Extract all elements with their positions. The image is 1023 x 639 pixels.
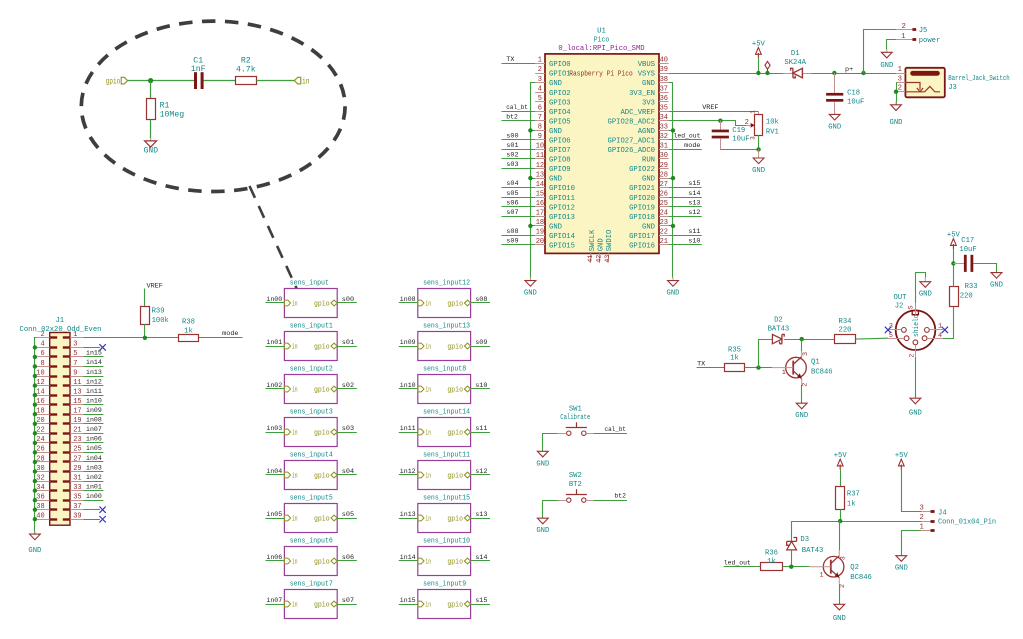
svg-text:in: in (425, 430, 431, 438)
svg-text:in04: in04 (266, 468, 282, 476)
svg-text:S: S (907, 305, 915, 309)
svg-text:s13: s13 (475, 511, 487, 519)
annotation dashed ellipse (81, 21, 345, 191)
power +5V at J4 (900, 465, 902, 470)
svg-text:GND: GND (642, 224, 655, 232)
wire J3 pin3 to pin2 to GND (896, 82, 898, 105)
svg-text:in05: in05 (86, 445, 102, 453)
J1 pin 34 (36, 490, 49, 492)
svg-text:cal_bt: cal_bt (506, 104, 528, 112)
ground under Q1 (801, 402, 803, 404)
svg-text:BC846: BC846 (811, 368, 833, 376)
wire net s03 to U1 pin 12 (502, 168, 536, 170)
svg-text:s00: s00 (342, 296, 354, 304)
svg-text:GND: GND (549, 80, 562, 88)
svg-text:s11: s11 (475, 425, 487, 433)
svg-text:RV1: RV1 (766, 128, 779, 136)
svg-text:GPIO9: GPIO9 (549, 166, 571, 174)
svg-text:BAT43: BAT43 (768, 326, 790, 334)
ground under C18 (834, 111, 836, 114)
svg-text:R38: R38 (182, 318, 195, 326)
svg-text:sens_input11: sens_input11 (423, 452, 470, 460)
svg-text:13: 13 (536, 171, 544, 179)
J1 pin 23 (70, 442, 83, 444)
svg-text:in: in (292, 301, 298, 309)
svg-text:in01: in01 (266, 339, 282, 347)
svg-text:3: 3 (839, 556, 847, 560)
wire D3 top branch (791, 521, 793, 541)
wire R34 to J2 pin5 (856, 337, 889, 340)
resistor R38 (179, 335, 199, 342)
wire net in11 from J1 pin 13 (83, 395, 103, 397)
J1 pin 6 (36, 356, 49, 358)
svg-text:gpio: gpio (314, 301, 330, 309)
svg-text:R39: R39 (152, 308, 165, 316)
op-amp U1 body (545, 54, 659, 254)
svg-text:24: 24 (36, 436, 44, 444)
wire J2 shield to GND (916, 273, 926, 304)
svg-text:8: 8 (538, 124, 542, 132)
wire SW2 left to GND (543, 501, 558, 519)
wire net s07 to U1 pin 17 (502, 216, 536, 218)
wire net in06 from J1 pin 23 (83, 442, 103, 444)
ground J2 shield (924, 278, 926, 282)
ground under SW2 (542, 517, 544, 519)
ground under SW1 (542, 450, 544, 452)
J1 pin 21 (70, 433, 83, 435)
svg-text:in03: in03 (266, 425, 282, 433)
J1 pin 28 (36, 461, 49, 463)
junction U1 right bus pin 28 (671, 176, 675, 180)
svg-text:GND: GND (828, 123, 841, 131)
svg-text:14: 14 (36, 388, 44, 396)
no-connect J1 pin 39 (83, 519, 100, 521)
svg-text:in03: in03 (86, 464, 102, 472)
svg-text:16: 16 (536, 200, 544, 208)
svg-text:23: 23 (660, 219, 668, 227)
U1 pin 3 GND (535, 82, 545, 84)
svg-text:26: 26 (36, 446, 44, 454)
svg-text:33: 33 (73, 484, 81, 492)
wire R1 to GND (150, 120, 152, 139)
junction U1 left bus pin 8 (528, 128, 532, 132)
J1 pin 38 (36, 509, 49, 511)
svg-text:8: 8 (40, 360, 44, 368)
svg-text:sens_input7: sens_input7 (290, 581, 333, 589)
svg-text:1: 1 (898, 66, 902, 74)
svg-text:15: 15 (73, 398, 81, 406)
svg-text:Conn_01x04_Pin: Conn_01x04_Pin (938, 519, 996, 527)
wire GPIO28 to RV1 wiper (669, 121, 746, 126)
J1 pin 39 (70, 519, 83, 521)
ground under Q2 (838, 603, 840, 605)
junction J5 tap (861, 71, 865, 75)
svg-text:gpio: gpio (447, 516, 463, 524)
sheet sens_input4 (284, 461, 337, 490)
hier label in (294, 77, 300, 84)
svg-text:GND: GND (597, 238, 605, 251)
svg-text:s02: s02 (342, 382, 354, 390)
svg-text:Calibrate: Calibrate (560, 414, 590, 422)
U1 pin 35 ADC_VREF (659, 111, 669, 113)
wire led_out to R36 (724, 566, 761, 568)
U1 pin 2 GPIO1 (535, 73, 545, 75)
junction J1 bus row 11 (33, 441, 37, 445)
svg-text:31: 31 (73, 474, 81, 482)
svg-text:in: in (302, 77, 310, 86)
U1 pin 42 GND (599, 253, 601, 262)
svg-text:in00: in00 (86, 493, 102, 501)
wire R2 to in (256, 80, 294, 82)
junction J1 bus row 4 (33, 374, 37, 378)
J1 pin 3 (70, 347, 83, 349)
svg-text:SK24A: SK24A (784, 59, 806, 67)
connector J5 pin 2 (896, 29, 912, 31)
svg-text:s06: s06 (342, 554, 354, 562)
svg-text:R33: R33 (965, 283, 978, 291)
svg-text:6: 6 (40, 350, 44, 358)
wire net s14 from U1 pin 26 (669, 197, 702, 199)
svg-text:28: 28 (660, 171, 668, 179)
svg-text:GND: GND (990, 282, 1003, 290)
wire net in15 from J1 pin 5 (83, 356, 103, 358)
wire D2 to R34 node (784, 339, 834, 341)
J1 pin 14 (36, 395, 49, 397)
svg-text:GND: GND (890, 119, 903, 127)
svg-text:sens_input15: sens_input15 (423, 495, 470, 503)
wire net s13 from U1 pin 25 (669, 206, 702, 208)
svg-text:s09: s09 (506, 238, 518, 246)
svg-text:sens_input9: sens_input9 (423, 581, 466, 589)
svg-text:D2: D2 (774, 316, 783, 324)
U1 pin 32 GPIO27_ADC1 (659, 139, 669, 141)
U1 pin 43 SWDIO (608, 253, 610, 262)
svg-text:1: 1 (782, 369, 786, 377)
svg-text:2: 2 (908, 354, 916, 358)
J1 pin 31 (70, 481, 83, 483)
svg-text:J4: J4 (938, 510, 947, 518)
svg-text:sens_input14: sens_input14 (423, 409, 470, 417)
wire net TX to U1 pin 1 (502, 63, 536, 65)
diode D1 SK24A (791, 68, 796, 78)
J1 pin 15 (70, 404, 83, 406)
svg-text:19: 19 (73, 417, 81, 425)
svg-text:10uF: 10uF (959, 246, 976, 254)
svg-text:s08: s08 (506, 228, 518, 236)
no-connect J2 pin 3 (885, 327, 891, 333)
svg-text:27: 27 (73, 455, 81, 463)
svg-text:GPIO22: GPIO22 (629, 166, 655, 174)
wire net led_out from U1 pin 32 (669, 139, 702, 141)
no-connect J1 pin 3 (83, 347, 100, 349)
annotation callout dashed line (250, 186, 302, 298)
U1 pin 25 GPIO19 (659, 206, 669, 208)
connector J4 pin 2 (921, 521, 930, 523)
wire Q2 collector (839, 521, 841, 550)
junction J1 bus row 10 (33, 431, 37, 435)
J1 pin 11 (70, 385, 83, 387)
svg-text:23: 23 (73, 436, 81, 444)
junction J1 bus row 9 (33, 422, 37, 426)
svg-text:R37: R37 (847, 491, 860, 499)
U1 pin 13 GND (535, 178, 545, 180)
wire net in07 from J1 pin 21 (83, 433, 103, 435)
wire J2 pin2 to GND (915, 358, 917, 399)
J1 pin 1 (70, 337, 83, 339)
svg-text:D3: D3 (800, 536, 809, 544)
svg-text:gpio: gpio (447, 344, 463, 352)
svg-text:in: in (425, 602, 431, 610)
connector J3 pin 2 (896, 91, 905, 93)
svg-text:s10: s10 (475, 382, 487, 390)
U1 pin 28 GND (659, 178, 669, 180)
svg-text:AGND: AGND (638, 128, 655, 136)
svg-text:sens_input10: sens_input10 (423, 538, 470, 546)
U1 pin 1 GPIO0 (535, 63, 545, 65)
J1 pin 13 (70, 395, 83, 397)
svg-text:gpio: gpio (447, 430, 463, 438)
U1 pin 22 GPIO17 (659, 235, 669, 237)
svg-text:+5V: +5V (752, 41, 766, 49)
svg-text:s10: s10 (688, 238, 700, 246)
svg-text:p+: p+ (845, 66, 853, 74)
resistor R36 (761, 563, 783, 571)
svg-text:in09: in09 (86, 407, 102, 415)
svg-text:in14: in14 (400, 554, 416, 562)
svg-text:3: 3 (538, 76, 542, 84)
svg-text:in06: in06 (86, 436, 102, 444)
U1 pin 19 GPIO14 (535, 235, 545, 237)
svg-text:in07: in07 (86, 426, 102, 434)
U1 pin 26 GPIO20 (659, 197, 669, 199)
svg-text:20: 20 (536, 238, 544, 246)
svg-text:in: in (425, 473, 431, 481)
wire net in03 from J1 pin 29 (83, 471, 103, 473)
svg-text:in12: in12 (86, 378, 102, 386)
resistor R35 (725, 364, 745, 372)
U1 pin 38 GND (659, 82, 669, 84)
connector J3 pin 3 (896, 82, 905, 84)
svg-text:in12: in12 (400, 468, 416, 476)
svg-text:in04: in04 (86, 455, 102, 463)
svg-text:21: 21 (660, 238, 668, 246)
svg-text:3: 3 (802, 352, 810, 356)
svg-text:gpio: gpio (447, 301, 463, 309)
U1 pin 11 GPIO8 (535, 158, 545, 160)
svg-text:30: 30 (660, 152, 668, 160)
svg-text:35: 35 (73, 494, 81, 502)
svg-text:J5: J5 (919, 27, 928, 35)
svg-text:GPIO20: GPIO20 (629, 195, 655, 203)
svg-text:in10: in10 (86, 398, 102, 406)
svg-text:6: 6 (538, 105, 542, 113)
svg-text:gpio: gpio (314, 430, 330, 438)
junction J1 bus row 15 (33, 479, 37, 483)
svg-text:sens_input1: sens_input1 (290, 323, 333, 331)
J1 pin 7 (70, 366, 83, 368)
wire +5V to J4 pin3 (902, 470, 922, 512)
J1 pin 8 (36, 366, 49, 368)
ground under J4 (900, 555, 902, 557)
svg-text:s04: s04 (506, 180, 518, 188)
sheet sens_input8 (418, 375, 471, 404)
svg-text:sens_input: sens_input (290, 280, 329, 288)
svg-text:1: 1 (820, 571, 824, 579)
svg-text:37: 37 (73, 503, 81, 511)
junction U1 right bus pin 33 (671, 128, 675, 132)
J1 pin 5 (70, 356, 83, 358)
J1 pin 36 (36, 500, 49, 502)
U1 pin 5 GPIO3 (535, 101, 545, 103)
J1 pin 9 (70, 376, 83, 378)
power +5V at VSYS (757, 53, 759, 58)
J1 pin 12 (36, 385, 49, 387)
U1 pin 27 GPIO21 (659, 187, 669, 189)
svg-text:2: 2 (839, 584, 847, 588)
svg-text:gpio: gpio (106, 77, 121, 86)
sheet sens_input14 (418, 418, 471, 447)
svg-text:in05: in05 (266, 511, 282, 519)
ground under C17 (996, 272, 998, 274)
svg-text:3: 3 (749, 136, 756, 140)
power +5V at R37 (839, 465, 841, 470)
svg-text:s04: s04 (342, 468, 354, 476)
svg-text:10: 10 (36, 369, 44, 377)
svg-text:11: 11 (536, 152, 544, 160)
sheet sens_input3 (284, 418, 337, 447)
svg-text:GPIO21: GPIO21 (629, 185, 655, 193)
U1 pin 7 GPIO5 (535, 120, 545, 122)
J1 pin 27 (70, 461, 83, 463)
wire net s04 to U1 pin 14 (502, 187, 536, 189)
svg-text:38: 38 (660, 76, 668, 84)
svg-text:3: 3 (898, 75, 902, 83)
svg-text:3V3: 3V3 (642, 99, 655, 107)
wire net s15 from U1 pin 27 (669, 187, 702, 189)
svg-text:32: 32 (660, 133, 668, 141)
svg-text:RUN: RUN (642, 157, 655, 165)
svg-text:GPIO4: GPIO4 (549, 109, 571, 117)
svg-text:1: 1 (938, 323, 942, 331)
svg-text:1k: 1k (847, 500, 856, 508)
sheet sens_input12 (418, 289, 471, 318)
svg-text:1k: 1k (184, 328, 193, 336)
svg-text:gpio: gpio (314, 602, 330, 610)
junction J1 bus row 17 (33, 498, 37, 502)
svg-text:GPIO2: GPIO2 (549, 90, 571, 98)
svg-text:VSYS: VSYS (638, 71, 655, 79)
svg-text:R1: R1 (160, 101, 170, 110)
svg-text:33: 33 (660, 124, 668, 132)
svg-text:C19: C19 (732, 127, 745, 135)
svg-text:in: in (292, 430, 298, 438)
svg-text:VREF: VREF (147, 282, 163, 290)
svg-text:GPIO6: GPIO6 (549, 138, 571, 146)
svg-text:cal_bt: cal_bt (605, 426, 627, 434)
wire junction to R1 (150, 81, 152, 99)
junction J1 bus row 12 (33, 450, 37, 454)
svg-text:GND: GND (795, 412, 808, 420)
svg-text:220: 220 (839, 327, 852, 335)
wire D3 bottom (791, 550, 793, 567)
svg-text:3: 3 (73, 341, 77, 349)
wire R35 to Q1 base (744, 367, 772, 369)
connector J1 body (50, 333, 70, 526)
svg-text:GPIO12: GPIO12 (549, 204, 575, 212)
U1 pin 18 GND (535, 225, 545, 227)
U1 pin 31 GPIO26_ADC0 (659, 149, 669, 151)
svg-text:s01: s01 (342, 339, 354, 347)
junction J1 bus row 5 (33, 383, 37, 387)
wire J1 left GND bus (35, 338, 37, 535)
capacitor C19 (720, 121, 722, 130)
svg-text:R2: R2 (241, 56, 251, 65)
svg-text:gpio: gpio (314, 473, 330, 481)
J1 pin 35 (70, 500, 83, 502)
svg-text:37: 37 (660, 85, 668, 93)
wire net s02 to U1 pin 11 (502, 158, 536, 160)
wire net in05 from J1 pin 25 (83, 452, 103, 454)
connector J2 DIN body (896, 310, 936, 350)
svg-text:in14: in14 (86, 359, 102, 367)
U1 pin 40 VBUS (659, 63, 669, 65)
svg-text:9: 9 (73, 369, 77, 377)
sheet sens_input2 (284, 375, 337, 404)
resistor R33 (950, 287, 959, 307)
svg-text:27: 27 (660, 181, 668, 189)
svg-text:35: 35 (660, 105, 668, 113)
J1 pin 24 (36, 442, 49, 444)
junction J1 bus row 7 (33, 403, 37, 407)
U1 pin 16 GPIO12 (535, 206, 545, 208)
svg-text:17: 17 (73, 408, 81, 416)
J2 shield pin (915, 303, 917, 315)
junction U1 right bus pin 23 (671, 224, 675, 228)
svg-text:1nF: 1nF (191, 65, 206, 74)
svg-text:in: in (425, 559, 431, 567)
J1 pin 2 (36, 337, 49, 339)
sheet sens_input9 (418, 590, 471, 619)
svg-text:s02: s02 (506, 152, 518, 160)
ground U1 left (529, 278, 531, 281)
wire net in10 from J1 pin 15 (83, 404, 103, 406)
U1 pin 20 GPIO15 (535, 244, 545, 246)
wire TX to R35 (697, 367, 725, 369)
wire net s06 to U1 pin 16 (502, 206, 536, 208)
svg-text:29: 29 (73, 465, 81, 473)
capacitor C1 (194, 72, 197, 89)
svg-text:43: 43 (604, 255, 612, 263)
svg-text:34: 34 (36, 484, 44, 492)
J1 pin 40 (36, 519, 49, 521)
U1 pin 24 GPIO18 (659, 216, 669, 218)
wire C17 to GND (974, 264, 997, 273)
svg-text:1k: 1k (767, 558, 776, 566)
svg-text:Q2: Q2 (850, 564, 859, 572)
wire net mode from U1 pin 31 (669, 149, 702, 151)
svg-text:GND: GND (524, 290, 537, 298)
svg-text:11: 11 (73, 379, 81, 387)
svg-text:gpio: gpio (314, 516, 330, 524)
svg-text:30: 30 (36, 465, 44, 473)
svg-text:bt2: bt2 (506, 113, 518, 121)
node junction gpio/R1 (148, 78, 153, 83)
svg-text:s12: s12 (475, 468, 487, 476)
svg-text:18: 18 (36, 408, 44, 416)
sheet sens_input11 (418, 461, 471, 490)
svg-text:in10: in10 (400, 382, 416, 390)
svg-text:9: 9 (538, 133, 542, 141)
